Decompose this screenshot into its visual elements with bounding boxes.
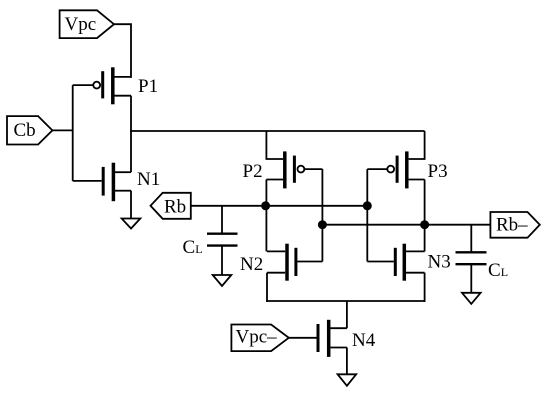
svg-text:Vpc: Vpc bbox=[65, 14, 97, 35]
wire N1 source down bbox=[130, 191, 132, 219]
junction node A right bbox=[363, 201, 372, 210]
svg-text:Cb: Cb bbox=[14, 120, 36, 141]
transistor P2 bbox=[266, 151, 322, 188]
svg-text:N3: N3 bbox=[428, 251, 451, 272]
ground under right CL bbox=[462, 293, 481, 304]
svg-text:P1: P1 bbox=[138, 76, 158, 97]
wire gate bus (P1/N1 gates) bbox=[72, 85, 74, 181]
flag Rb- bbox=[490, 212, 539, 238]
svg-text:P3: P3 bbox=[428, 161, 448, 182]
wire to P3 source bbox=[409, 131, 425, 159]
transistor P3 bbox=[367, 151, 424, 188]
svg-text:N1: N1 bbox=[137, 169, 160, 190]
flag Cb bbox=[7, 116, 52, 144]
wire P2 drain to node A and N2 drain bbox=[265, 180, 267, 252]
flag Vpc- bbox=[231, 325, 288, 352]
svg-text:N2: N2 bbox=[240, 254, 263, 275]
capacitor CL left bbox=[207, 206, 238, 275]
flag Rb bbox=[151, 193, 191, 219]
junction node B left bbox=[318, 220, 327, 229]
capacitor CL right bbox=[456, 225, 487, 293]
junction node A left bbox=[261, 201, 270, 210]
svg-text:P2: P2 bbox=[243, 161, 263, 182]
svg-text:Rb: Rb bbox=[164, 196, 186, 217]
ground under N4 bbox=[338, 374, 357, 386]
svg-text:Vpc–: Vpc– bbox=[236, 327, 278, 348]
transistor N4 bbox=[318, 320, 347, 357]
ground under left CL bbox=[213, 275, 232, 286]
wire N3 source down to tail rail bbox=[424, 273, 426, 302]
wire Cb to gate bus bbox=[52, 129, 72, 131]
wire Vpc to P1 drain bbox=[114, 24, 131, 78]
wire Vpc- to N4 gate bbox=[289, 337, 317, 339]
svg-text:N4: N4 bbox=[352, 330, 376, 351]
junction node B right bbox=[420, 220, 429, 229]
ground under N1 bbox=[122, 219, 141, 229]
transistor N1 bbox=[73, 163, 131, 202]
wire tail rail to N4 drain bbox=[346, 301, 348, 328]
wire node A vertical (P3/N3 gates) bbox=[366, 169, 368, 261]
wire N4 source down bbox=[346, 348, 348, 375]
wire P1 source to output node bbox=[130, 96, 132, 132]
flag Vpc bbox=[60, 10, 114, 38]
transistor N3 bbox=[367, 244, 424, 281]
wire N2 source down to tail rail bbox=[266, 273, 268, 302]
wire P3 drain to node B and N3 drain bbox=[424, 180, 426, 252]
wire rail node A bbox=[191, 205, 367, 207]
wire tail rail bbox=[266, 300, 425, 302]
wire output node to N1 drain bbox=[130, 131, 132, 172]
svg-text:Rb–: Rb– bbox=[496, 215, 528, 236]
wire main output line bbox=[130, 130, 425, 132]
transistor P1 bbox=[73, 67, 131, 104]
wire rail node B bbox=[322, 224, 490, 226]
wire to P2 source bbox=[266, 131, 283, 159]
transistor N2 bbox=[267, 244, 322, 281]
wire node B vertical (P2/N2 gates) bbox=[321, 169, 323, 261]
